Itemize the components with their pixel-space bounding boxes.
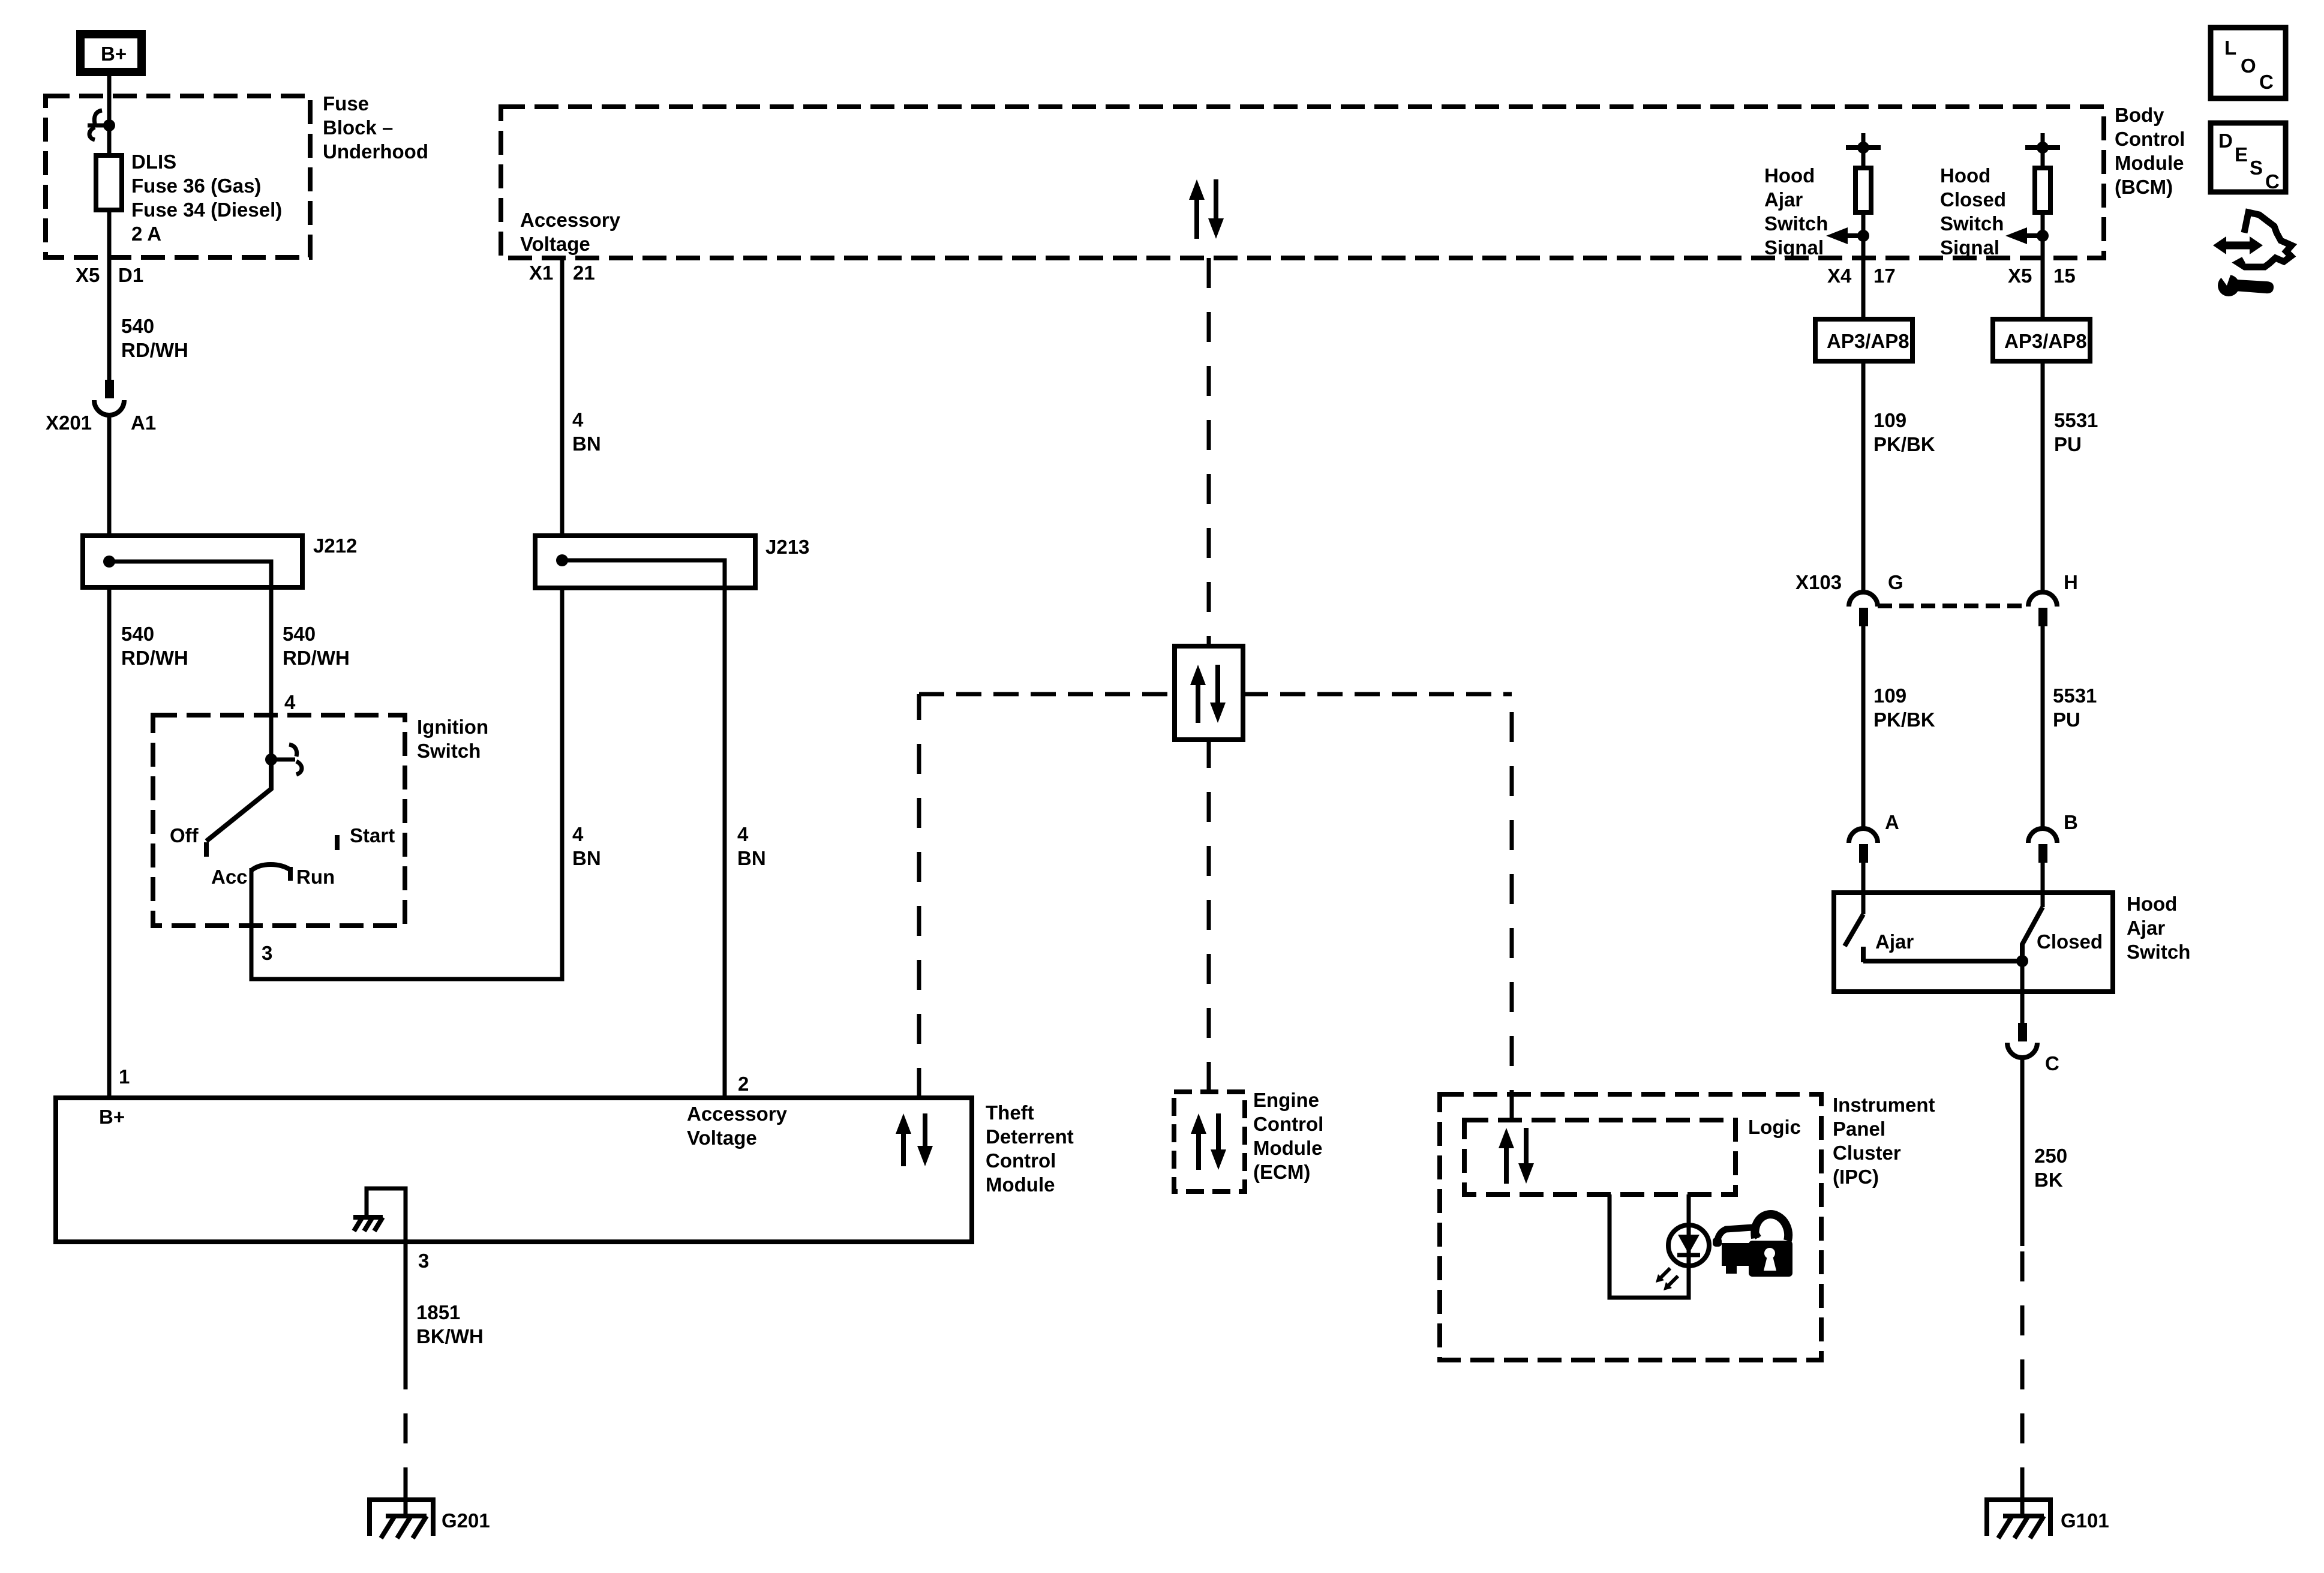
LED indicator [1668,1225,1709,1266]
svg-text:5531: 5531 [2054,409,2098,431]
connector pin A [1849,811,1899,863]
theft deterrent control module box [56,1098,972,1242]
wire AP3/AP8 to X103 G [1861,361,1866,592]
svg-text:H: H [2064,571,2078,593]
svg-text:Signal: Signal [1940,236,1999,259]
theft module serial data arrows [896,1113,933,1166]
svg-text:Switch: Switch [1764,212,1828,235]
svg-text:O: O [2241,55,2256,77]
wire dot to fuse [107,125,112,155]
logic serial data arrows [1499,1128,1534,1184]
wire resistor to BCM pin X5-15 [2041,212,2045,258]
svg-text:PK/BK: PK/BK [1873,433,1935,455]
svg-text:Ajar: Ajar [1764,188,1803,211]
svg-text:17: 17 [1873,265,1896,287]
connector pin B [2028,811,2078,863]
svg-text:RD/WH: RD/WH [121,647,188,669]
svg-text:Module: Module [986,1173,1055,1196]
Start contact [335,835,340,850]
Acc contact and wiper arc [252,864,290,870]
serial data link arrows [1190,665,1226,723]
harness tag AP3/AP8 left [1815,319,1912,361]
wire ignition pin 3 [251,588,562,979]
svg-text:4: 4 [572,409,584,431]
svg-text:Control: Control [2115,128,2185,150]
svg-text:RD/WH: RD/WH [121,339,188,361]
connector X201 pin A1 [46,380,156,434]
dashed data wire to ECM [1207,740,1211,1092]
wire common to C [2020,961,2025,1023]
svg-text:A: A [1885,811,1899,833]
BCM serial data arrows [1189,179,1224,239]
svg-text:4: 4 [737,823,749,845]
BCM hood ajar pull-up supply [1846,133,1881,168]
wire J212 right output to ignition switch [269,587,274,760]
svg-text:BK: BK [2034,1169,2063,1191]
svg-text:B+: B+ [99,1106,125,1128]
svg-text:Switch: Switch [1940,212,2004,235]
svg-text:5531: 5531 [2053,685,2097,707]
svg-text:Engine: Engine [1253,1089,1319,1111]
closed switch blade [2022,907,2043,961]
svg-text:AP3/AP8: AP3/AP8 [1827,330,1909,352]
ECM serial data arrows [1191,1113,1226,1170]
dashed data bus horizontal left [919,692,1175,697]
svg-text:G101: G101 [2061,1509,2109,1532]
connector pin C [2007,1023,2059,1074]
IPC logic dashed box [1464,1120,1736,1194]
svg-text:(BCM): (BCM) [2115,176,2173,198]
wire theft module pin 3 [404,1242,408,1381]
svg-text:Ignition: Ignition [417,716,488,738]
wire A to hood ajar switch [1861,863,1866,914]
svg-text:540: 540 [283,623,316,645]
svg-text:Block –: Block – [323,116,393,139]
wire C to ground [2020,1058,2025,1246]
svg-text:Module: Module [1253,1137,1322,1159]
connector X103 dashed link [1878,604,2028,608]
svg-text:RD/WH: RD/WH [283,647,350,669]
service icon wrench [2216,268,2274,296]
junction dot in J213 [556,554,568,566]
wire resistor to BCM pin X4-17 [1861,212,1866,258]
svg-text:PK/BK: PK/BK [1873,709,1935,731]
svg-text:C: C [2045,1052,2059,1074]
svg-text:(IPC): (IPC) [1833,1166,1879,1188]
dashed wire to G201 [404,1380,408,1497]
splice pack J212 [83,535,357,587]
svg-text:L: L [2224,37,2236,59]
svg-text:J213: J213 [765,536,809,558]
Off contact [204,842,209,857]
svg-text:109: 109 [1873,685,1906,707]
svg-text:Acc: Acc [211,866,248,888]
svg-text:Logic: Logic [1748,1116,1801,1138]
svg-text:BN: BN [572,847,601,869]
dashed data bus horizontal right [1243,692,1512,697]
service icon double arrow [2213,236,2263,254]
switch blade to Off [206,760,271,841]
svg-text:G201: G201 [442,1509,490,1532]
svg-text:Hood: Hood [2127,893,2177,915]
wire X201 to J212 [107,415,112,536]
svg-text:X1: X1 [529,262,553,284]
ground G101 [1984,1497,2109,1538]
wire X4-17 to AP3/AP8 [1861,258,1866,319]
svg-text:Hood: Hood [1764,164,1815,187]
engine control module (ECM) dashed box [1174,1092,1245,1191]
svg-text:B: B [2064,811,2078,833]
svg-text:Fuse 36 (Gas): Fuse 36 (Gas) [131,175,261,197]
ignition switch dashed box [153,715,405,926]
fusible element curl [88,110,109,140]
svg-text:D: D [2218,130,2233,152]
svg-text:Accessory: Accessory [687,1103,788,1125]
svg-text:X201: X201 [46,412,92,434]
wire B to hood ajar switch [2041,863,2045,907]
wire J213 right output to theft module pin 2 [723,588,727,1098]
svg-text:Closed: Closed [2037,930,2103,953]
svg-text:21: 21 [573,262,595,284]
switch common wire [1863,959,2022,963]
body control module (BCM) dashed box [501,107,2104,258]
svg-text:3: 3 [262,942,272,964]
power symbol B+ [80,34,142,72]
svg-text:Theft: Theft [986,1101,1034,1124]
ground G201 [367,1497,490,1538]
svg-text:Closed: Closed [1940,188,2006,211]
junction dot [103,119,115,131]
theft module internal ground wire [367,1188,406,1242]
junction dot common [2016,955,2028,967]
ajar fixed contact [1861,947,1866,962]
svg-text:Off: Off [170,824,199,846]
connector X103 pin H [2028,571,2078,626]
hood closed switch signal arrow [2005,227,2049,244]
svg-text:Run: Run [296,866,335,888]
svg-text:540: 540 [121,315,154,337]
svg-text:Cluster: Cluster [1833,1142,1901,1164]
wire X5-15 to AP3/AP8 [2041,258,2045,319]
svg-text:S: S [2250,157,2263,179]
svg-text:250: 250 [2034,1145,2067,1167]
svg-text:Control: Control [1253,1113,1323,1135]
svg-text:3: 3 [418,1250,429,1272]
dashed serial data wire BCM down [1207,258,1211,646]
svg-text:C: C [2259,71,2274,93]
svg-text:Fuse: Fuse [323,92,369,115]
harness tag AP3/AP8 right [1993,319,2090,361]
hood ajar switch box [1834,893,2113,992]
fuse DLIS Fuse 36 (Gas) / Fuse 34 (Diesel) 2 A [96,151,282,245]
resistor hood closed [2035,168,2050,212]
svg-text:Deterrent: Deterrent [986,1125,1074,1148]
svg-text:Hood: Hood [1940,164,1990,187]
svg-text:4: 4 [572,823,584,845]
svg-text:Accessory: Accessory [520,209,621,231]
service icon hood outline [2238,212,2292,267]
svg-text:Signal: Signal [1764,236,1824,259]
svg-text:X4: X4 [1827,265,1852,287]
fuse block - underhood dashed box [46,96,310,257]
svg-text:BK/WH: BK/WH [416,1325,484,1347]
resistor hood ajar [1855,168,1871,212]
svg-text:15: 15 [2053,265,2076,287]
wire AP3/AP8 to X103 H [2041,361,2045,592]
wire X103 G to A [1861,626,1866,828]
svg-text:E: E [2235,143,2248,166]
svg-text:1851: 1851 [416,1301,460,1323]
security indicator car and padlock icon [1713,1214,1792,1277]
wire J213 internal [562,560,725,588]
svg-text:1: 1 [119,1065,130,1088]
svg-text:PU: PU [2054,433,2082,455]
junction dot in J212 [103,556,115,568]
connector X103 pin G [1795,571,1903,626]
hood ajar switch signal arrow [1826,227,1869,244]
wire B+ to fuse block [107,76,112,125]
BCM hood closed pull-up supply [2025,133,2060,168]
wire LED anode to logic [1687,1194,1691,1226]
instrument panel cluster (IPC) dashed box [1440,1094,1821,1360]
svg-text:Voltage: Voltage [687,1127,757,1149]
dashed wire to G101 [2020,1245,2025,1497]
ignition switch rotor curl [271,745,302,775]
wire logic to LED loop [1610,1194,1689,1298]
svg-text:B+: B+ [101,43,127,65]
svg-text:Start: Start [350,824,395,846]
svg-text:Underhood: Underhood [323,140,428,163]
svg-text:DLIS: DLIS [131,151,176,173]
splice pack J213 [535,536,809,588]
svg-text:109: 109 [1873,409,1906,431]
dashed data wire to IPC logic [1510,694,1514,1120]
wire X103 H to B [2041,626,2045,828]
wire BCM X1-21 to J213 [560,258,565,536]
svg-text:C: C [2265,170,2280,193]
svg-text:540: 540 [121,623,154,645]
svg-text:AP3/AP8: AP3/AP8 [2004,330,2087,352]
wire fuse to X201 [107,210,112,380]
svg-text:J212: J212 [313,535,357,557]
wire J212 left output to theft module pin 1 [107,587,112,1098]
svg-text:Switch: Switch [2127,941,2190,963]
svg-text:Module: Module [2115,152,2184,174]
svg-text:Body: Body [2115,104,2164,126]
svg-text:BN: BN [572,433,601,455]
svg-text:2: 2 [738,1073,749,1095]
svg-text:D1: D1 [118,264,143,286]
theft module internal chassis ground [353,1217,383,1231]
svg-text:A1: A1 [131,412,156,434]
DESC reference box [2211,123,2286,193]
svg-text:4: 4 [284,691,296,713]
LOC reference box [2211,28,2286,98]
svg-text:Fuse 34 (Diesel): Fuse 34 (Diesel) [131,199,282,221]
svg-text:PU: PU [2053,709,2080,731]
svg-text:X103: X103 [1795,571,1842,593]
dashed data wire to theft module [917,694,921,1098]
svg-text:X5: X5 [76,264,100,286]
svg-text:BN: BN [737,847,766,869]
ajar switch blade (open) [1845,914,1863,946]
svg-text:Switch: Switch [417,740,481,762]
serial data link box [1175,646,1243,740]
svg-text:Voltage: Voltage [520,233,590,255]
svg-text:Panel: Panel [1833,1118,1885,1140]
svg-text:G: G [1888,571,1903,593]
svg-text:Control: Control [986,1149,1056,1172]
LED emission arrows [1656,1268,1678,1290]
svg-text:Ajar: Ajar [1875,930,1914,953]
svg-text:Instrument: Instrument [1833,1094,1935,1116]
wire J212 internal [109,562,271,587]
svg-text:X5: X5 [2008,265,2032,287]
svg-text:(ECM): (ECM) [1253,1161,1310,1183]
svg-text:2 A: 2 A [131,223,161,245]
svg-text:Ajar: Ajar [2127,917,2165,939]
junction dot ignition [265,754,277,766]
